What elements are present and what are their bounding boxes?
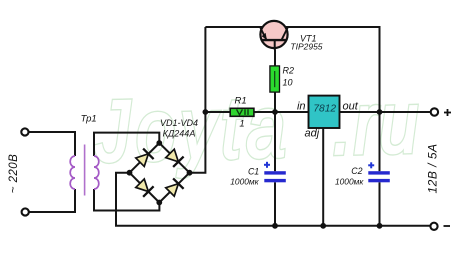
svg-text:R1: R1	[235, 96, 247, 107]
svg-text:1000мк: 1000мк	[230, 177, 259, 187]
svg-text:1: 1	[239, 119, 244, 130]
svg-text:TIP2955: TIP2955	[290, 42, 322, 52]
svg-text:12В / 5А: 12В / 5А	[425, 143, 439, 193]
svg-text:7812: 7812	[313, 103, 336, 114]
svg-text:1000мк: 1000мк	[335, 176, 364, 186]
svg-text:Тр1: Тр1	[81, 114, 97, 125]
svg-text:in: in	[297, 100, 306, 112]
svg-text:C1: C1	[248, 166, 259, 176]
svg-text:R2: R2	[283, 65, 295, 75]
svg-text:КД244А: КД244А	[163, 128, 196, 138]
svg-text:VD1-VD4: VD1-VD4	[160, 118, 198, 128]
svg-text:.ru: .ru	[331, 74, 422, 173]
svg-text:~ 220В: ~ 220В	[8, 154, 20, 193]
svg-text:adj: adj	[305, 128, 320, 140]
svg-text:10: 10	[283, 78, 293, 88]
svg-text:C2: C2	[351, 166, 362, 176]
svg-text:out: out	[343, 101, 359, 113]
